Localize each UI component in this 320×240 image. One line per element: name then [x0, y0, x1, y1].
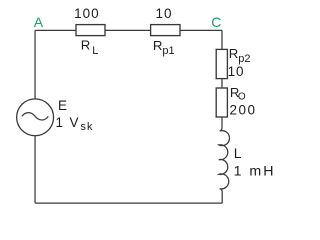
svg-text:10: 10	[156, 6, 173, 21]
svg-text:100: 100	[74, 6, 100, 21]
svg-text:E: E	[58, 98, 67, 113]
svg-text:10: 10	[228, 64, 245, 79]
svg-text:C: C	[211, 14, 221, 30]
svg-text:L: L	[234, 145, 242, 161]
svg-text:1 mH: 1 mH	[234, 164, 276, 180]
svg-text:A: A	[34, 14, 44, 30]
svg-text:200: 200	[230, 103, 257, 118]
